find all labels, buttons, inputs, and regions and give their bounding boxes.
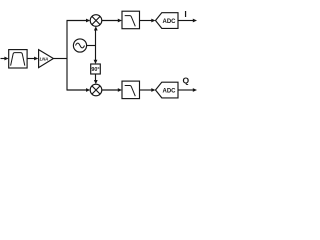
bandpass filter F1 box xyxy=(9,50,27,68)
wire mixer M1 to LPF1 xyxy=(102,20,119,22)
arrowhead into ADC1 xyxy=(151,19,155,23)
svg-text:I: I xyxy=(184,9,186,19)
lowpass filter LPF2 response curve xyxy=(125,86,136,97)
LO vertical wire down to 90 deg shifter xyxy=(95,46,97,62)
local oscillator LO circle xyxy=(73,39,86,52)
ADC2 block xyxy=(156,82,179,98)
wire mixer M2 to LPF2 xyxy=(102,89,119,91)
arrowhead up into mixer M1 xyxy=(94,26,98,30)
arrowhead into bottom mixer xyxy=(86,88,90,92)
ADC1 block xyxy=(156,13,179,29)
arrowhead into ADC2 xyxy=(151,88,155,92)
wire ADC1 to output I xyxy=(178,20,194,22)
lowpass filter LPF2 box xyxy=(122,81,140,99)
lowpass filter LPF1 box xyxy=(122,11,140,29)
wire LPF2 to ADC2 xyxy=(140,89,153,91)
wire filter to amp xyxy=(27,58,35,60)
svg-text:ADC: ADC xyxy=(163,89,177,95)
arrowhead into LPF1 xyxy=(118,19,122,23)
mixer M1 X xyxy=(92,16,100,24)
output Q arrowhead xyxy=(193,88,197,92)
arrowhead into 90 deg shifter xyxy=(94,60,98,64)
lowpass filter LPF1 response curve xyxy=(125,16,136,27)
svg-text:Q: Q xyxy=(182,76,189,86)
svg-text:LNA: LNA xyxy=(40,57,49,62)
LO sine wave xyxy=(76,43,85,48)
mixer M2 circle xyxy=(90,84,102,96)
svg-text:ADC: ADC xyxy=(163,19,177,25)
arrowhead down into mixer M2 xyxy=(94,80,98,84)
bandpass filter response curve xyxy=(11,53,25,66)
mixer M2 X xyxy=(92,86,100,94)
mixer M1 circle xyxy=(90,15,102,27)
wire LO to vertical LO line xyxy=(87,45,96,47)
LO vertical wire up to mixer M1 xyxy=(95,30,97,46)
wire split to bottom mixer xyxy=(67,89,87,91)
input wire xyxy=(1,58,6,60)
arrowhead into amp xyxy=(34,57,38,61)
amplifier LNA triangle xyxy=(39,50,54,68)
wire split to top mixer xyxy=(67,20,87,22)
wire amp to split node xyxy=(53,58,67,60)
phase shifter 90deg box xyxy=(91,64,101,74)
wire LPF1 to ADC1 xyxy=(140,20,153,22)
splitter vertical wire xyxy=(66,21,68,91)
arrowhead into top mixer xyxy=(86,19,90,23)
wire 90deg box to bottom mixer xyxy=(95,74,97,81)
arrowhead into LPF2 xyxy=(118,88,122,92)
wire ADC2 to output Q xyxy=(178,89,194,91)
input arrowhead xyxy=(4,57,8,61)
svg-text:90°: 90° xyxy=(91,67,99,73)
output I arrowhead xyxy=(193,19,197,23)
